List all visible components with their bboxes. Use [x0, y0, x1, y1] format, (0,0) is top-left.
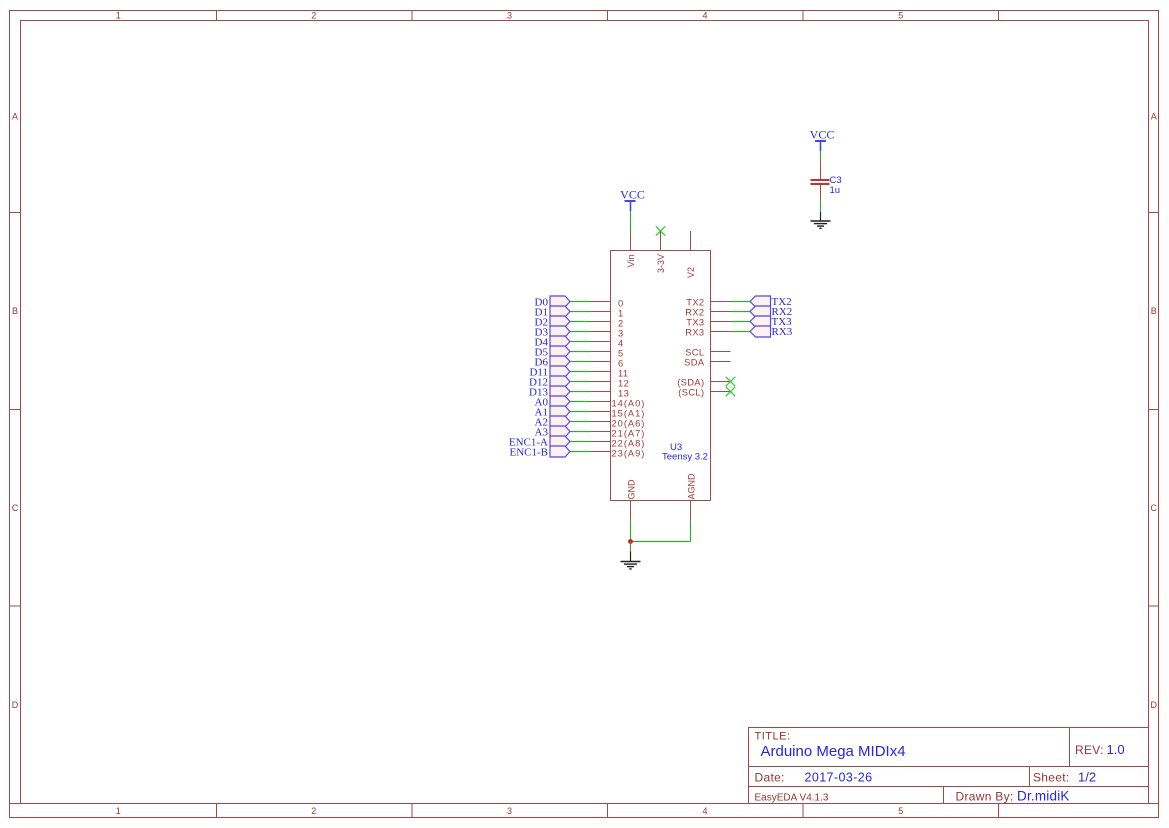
- svg-text:ENC1-B: ENC1-B: [510, 447, 549, 459]
- net flag RX3: [750, 326, 793, 338]
- junction at GND node: [628, 539, 633, 544]
- svg-text:3-3V: 3-3V: [656, 254, 666, 273]
- svg-text:TX2: TX2: [686, 298, 704, 308]
- svg-text:1/2: 1/2: [1078, 770, 1096, 785]
- svg-text:B: B: [12, 306, 18, 316]
- svg-text:TITLE:: TITLE:: [755, 731, 791, 743]
- pin AGND (bottom) of U3: [687, 473, 697, 521]
- net flag A1: [535, 406, 570, 419]
- wire net ENC1-A: [570, 441, 591, 443]
- pin RX3 (right) of U3: [685, 328, 730, 338]
- wire net D11: [570, 371, 591, 373]
- svg-text:Arduino Mega MIDIx4: Arduino Mega MIDIx4: [761, 743, 906, 760]
- wire net D12: [570, 381, 591, 383]
- wire VCC to C3: [820, 151, 822, 161]
- pin 23(A9) (left) of U3: [591, 449, 646, 459]
- no-connect flag on 3-3V: [656, 226, 665, 235]
- pin SCL (right) of U3: [685, 348, 730, 358]
- wire AGND to GND horizontal: [631, 541, 691, 543]
- net flag D1: [535, 306, 570, 319]
- net flag ENC1-B: [510, 446, 571, 459]
- wire net D2: [570, 321, 591, 323]
- pin 12 (left) of U3: [591, 379, 630, 389]
- net flag D13: [529, 386, 570, 399]
- pin 3 (left) of U3: [591, 329, 624, 339]
- svg-text:(SDA): (SDA): [677, 378, 704, 388]
- wire net D0: [570, 301, 591, 303]
- svg-text:Date:: Date:: [755, 771, 785, 785]
- svg-text:21(A7): 21(A7): [612, 429, 646, 439]
- svg-text:3: 3: [618, 329, 624, 339]
- wire net ENC1-B: [570, 451, 591, 453]
- wire net D4: [570, 341, 591, 343]
- svg-text:A: A: [1151, 112, 1157, 122]
- pin 13 (left) of U3: [591, 389, 630, 399]
- wire net D5: [570, 351, 591, 353]
- svg-text:SCL: SCL: [685, 348, 704, 358]
- svg-text:1: 1: [116, 11, 121, 21]
- svg-text:0: 0: [618, 299, 624, 309]
- net flag D5: [535, 346, 570, 359]
- svg-text:RX3: RX3: [772, 326, 793, 338]
- svg-text:2: 2: [311, 11, 316, 21]
- net flag TX2: [750, 296, 792, 308]
- svg-text:EasyEDA V4.1.3: EasyEDA V4.1.3: [755, 793, 829, 804]
- svg-text:RX2: RX2: [685, 308, 704, 318]
- svg-text:5: 5: [618, 349, 624, 359]
- svg-text:VCC: VCC: [810, 127, 835, 141]
- IC U3 Teensy 3.2 body: [611, 251, 711, 501]
- svg-text:20(A6): 20(A6): [612, 419, 646, 429]
- pin (SDA) (right) of U3: [677, 378, 730, 388]
- pin GND (bottom) of U3: [627, 479, 637, 521]
- pin 5 (left) of U3: [591, 349, 624, 359]
- wire net D13: [570, 391, 591, 393]
- net flag ENC1-A: [509, 436, 570, 449]
- wire VCC to Vin: [630, 211, 632, 231]
- wire net D6: [570, 361, 591, 363]
- wire net A3: [570, 431, 591, 433]
- wire junction to ground: [630, 542, 632, 552]
- svg-text:2: 2: [311, 806, 316, 816]
- svg-text:C: C: [12, 503, 19, 513]
- svg-text:22(A8): 22(A8): [612, 439, 646, 449]
- pin RX2 (right) of U3: [685, 308, 730, 318]
- svg-text:Vin: Vin: [626, 255, 636, 268]
- svg-text:RX3: RX3: [685, 328, 704, 338]
- pin V2 (top) of U3: [686, 231, 696, 278]
- svg-text:Teensy 3.2: Teensy 3.2: [662, 452, 708, 463]
- svg-text:D: D: [12, 700, 19, 710]
- net flag A2: [535, 416, 570, 429]
- svg-text:3: 3: [507, 11, 512, 21]
- svg-text:1u: 1u: [830, 185, 841, 196]
- pin 0 (left) of U3: [591, 299, 624, 309]
- net flag RX2: [750, 306, 792, 318]
- wire net D3: [570, 331, 591, 333]
- wire net RX3: [731, 331, 751, 333]
- svg-text:A: A: [12, 112, 18, 122]
- net flag A3: [535, 426, 570, 439]
- net flag D3: [535, 326, 570, 339]
- svg-text:11: 11: [618, 369, 628, 379]
- svg-text:VCC: VCC: [620, 187, 645, 201]
- svg-text:Sheet:: Sheet:: [1033, 771, 1070, 785]
- pin TX2 (right) of U3: [686, 298, 730, 308]
- pin 6 (left) of U3: [591, 359, 624, 369]
- wire AGND pin down: [690, 521, 692, 542]
- svg-text:13: 13: [618, 389, 629, 399]
- pin TX3 (right) of U3: [686, 318, 730, 328]
- pin 2 (left) of U3: [591, 319, 624, 329]
- net flag D2: [535, 316, 570, 329]
- svg-text:1: 1: [618, 309, 624, 319]
- svg-text:1: 1: [116, 806, 121, 816]
- ground symbol (C3): [811, 212, 831, 228]
- pin SDA (right) of U3: [684, 358, 730, 368]
- pin 3-3V (top) of U3: [656, 231, 666, 273]
- svg-text:4: 4: [702, 806, 707, 816]
- svg-text:3: 3: [507, 806, 512, 816]
- pin 14(A0) (left) of U3: [591, 399, 646, 409]
- wire net A2: [570, 421, 591, 423]
- svg-text:14(A0): 14(A0): [612, 399, 646, 409]
- power flag VCC (above Vin): [620, 187, 645, 211]
- svg-text:V2: V2: [686, 267, 696, 278]
- svg-text:SDA: SDA: [684, 358, 705, 368]
- svg-text:D: D: [1150, 700, 1157, 710]
- wire net TX2: [731, 301, 751, 303]
- svg-text:B: B: [1151, 306, 1157, 316]
- capacitor C3 1u: [811, 161, 842, 201]
- svg-text:23(A9): 23(A9): [612, 449, 646, 459]
- pin 15(A1) (left) of U3: [591, 409, 646, 419]
- pin 21(A7) (left) of U3: [591, 429, 646, 439]
- wire GND pin down: [630, 521, 632, 542]
- svg-text:15(A1): 15(A1): [612, 409, 646, 419]
- wire C3 to ground: [820, 201, 822, 212]
- wire net D1: [570, 311, 591, 313]
- svg-text:6: 6: [618, 359, 624, 369]
- pin 1 (left) of U3: [591, 309, 624, 319]
- net flag D4: [535, 336, 570, 349]
- svg-text:Dr.midiK: Dr.midiK: [1017, 789, 1070, 804]
- svg-text:12: 12: [618, 379, 629, 389]
- net flag D6: [535, 356, 570, 369]
- svg-text:REV:: REV:: [1075, 743, 1104, 757]
- wire net A0: [570, 401, 591, 403]
- svg-text:4: 4: [702, 11, 707, 21]
- no-connect flag on (SCL): [726, 387, 735, 396]
- svg-text:2: 2: [618, 319, 624, 329]
- net flag A0: [535, 396, 570, 409]
- svg-text:TX3: TX3: [686, 318, 704, 328]
- svg-text:Drawn By:: Drawn By:: [956, 790, 1014, 804]
- svg-text:(SCL): (SCL): [678, 388, 704, 398]
- no-connect flag on (SDA): [726, 377, 735, 386]
- svg-text:1.0: 1.0: [1107, 742, 1125, 757]
- net flag TX3: [750, 316, 792, 328]
- net flag D0: [535, 296, 570, 309]
- svg-text:GND: GND: [627, 479, 637, 500]
- ground symbol (U3): [621, 552, 641, 569]
- pin (SCL) (right) of U3: [678, 388, 730, 398]
- svg-text:C: C: [1150, 503, 1157, 513]
- svg-text:2017-03-26: 2017-03-26: [805, 771, 873, 785]
- title block: [749, 728, 1149, 804]
- svg-text:AGND: AGND: [687, 473, 697, 500]
- pin 20(A6) (left) of U3: [591, 419, 646, 429]
- svg-text:5: 5: [898, 11, 903, 21]
- wire net RX2: [731, 311, 751, 313]
- pin Vin (top) of U3: [626, 231, 636, 267]
- pin 4 (left) of U3: [591, 339, 624, 349]
- wire net A1: [570, 411, 591, 413]
- net flag D12: [529, 376, 570, 389]
- svg-text:5: 5: [898, 806, 903, 816]
- wire net TX3: [731, 321, 751, 323]
- pin 11 (left) of U3: [591, 369, 629, 379]
- power flag VCC (above C3): [810, 127, 835, 151]
- svg-text:4: 4: [618, 339, 624, 349]
- net flag D11: [529, 366, 570, 379]
- pin 22(A8) (left) of U3: [591, 439, 646, 449]
